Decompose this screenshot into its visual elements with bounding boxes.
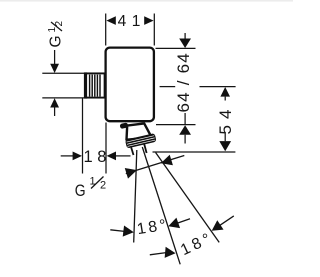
nozzle cone (127, 123, 152, 139)
arrow: 41 left (106, 16, 115, 25)
svg-text:G: G (48, 35, 65, 47)
arrow: angle2 right head (209, 220, 224, 235)
arrow: G1/2 down (50, 64, 59, 73)
wire: body-left extension (down) (82, 99, 84, 174)
svg-text:18: 18 (84, 148, 112, 166)
wire: center line left segment (160, 86, 176, 88)
wire: 41 right extension line (153, 14, 155, 46)
label G 1/2 (bottom) (75, 176, 106, 201)
arrow: chord left head (125, 165, 139, 179)
svg-text:G: G (75, 182, 86, 201)
wire: pipe top edge extension (42, 72, 84, 74)
wire: angle arc chord (126, 156, 185, 174)
arrow: angle1 left head (123, 225, 135, 237)
wire: fan horizontal line (153, 151, 236, 153)
svg-text:64 / 64: 64 / 64 (174, 52, 193, 112)
wire: 18 dim left stem (61, 155, 73, 157)
arrow: 64/64 bottom (up) (179, 125, 191, 135)
wire: angle2 left arrow stem (150, 253, 166, 255)
arrow: 41 right (144, 16, 153, 25)
wire: G1/2 dim vertical (top part) (54, 50, 56, 65)
wire: angle1 right arrow stem (178, 219, 190, 223)
arrow: 18 left (points right) (73, 152, 82, 161)
nozzle nut (125, 133, 157, 148)
svg-text:41: 41 (118, 13, 146, 30)
arrow: 54 bottom (down) (219, 141, 231, 151)
svg-text:18°: 18° (178, 229, 216, 259)
wire: 54 stem lower (224, 132, 226, 141)
wire: 54 stem upper (224, 97, 226, 101)
arrow: 18 right (points left) (107, 152, 116, 161)
svg-text:2: 2 (54, 21, 65, 27)
arrow: 64/64 top (down) (179, 39, 191, 49)
wire: pipe bottom edge extension (42, 97, 84, 99)
wire: G1/2 dim vertical (bottom part) (54, 107, 56, 117)
wire: 18 dim right stem (116, 155, 131, 157)
nozzle legs (131, 148, 133, 156)
wire: 64/64 dim stem bottom (184, 135, 186, 144)
pipe (threaded) (84, 72, 105, 98)
label G 1/2 (top, rotated) (47, 21, 65, 48)
arrow: G1/2 up (50, 98, 59, 107)
arrow: angle2 left head (165, 247, 176, 259)
svg-text:18°: 18° (136, 216, 170, 238)
wire: angle2 right arrow stem (220, 216, 234, 226)
wire: 64/64 dim stem top (184, 33, 186, 40)
svg-text:2: 2 (100, 180, 106, 192)
wire: fan line 3 (156, 153, 220, 243)
wire: angle1 left arrow stem (110, 230, 124, 232)
wire: 64/64 top extension (156, 47, 196, 49)
top page edge (0, 0, 293, 2)
nozzle tab (120, 122, 129, 129)
wire: 64/64 bottom extension (156, 124, 196, 126)
arrow: 54 top (up) (220, 87, 230, 97)
svg-text:54: 54 (216, 104, 235, 135)
wire: 64/64 dim mid segment (184, 113, 186, 124)
wire: fan line 1 (134, 150, 137, 243)
wire: 41 left extension line (105, 14, 107, 46)
body (wall outlet) (106, 48, 154, 122)
arrow: chord right head (159, 155, 173, 169)
wire: center line right segment (200, 86, 236, 88)
wire: body-left-edge extension (down) (105, 123, 107, 174)
wire: fan line 2 (142, 147, 180, 264)
arrow: angle1 right head (166, 218, 180, 232)
